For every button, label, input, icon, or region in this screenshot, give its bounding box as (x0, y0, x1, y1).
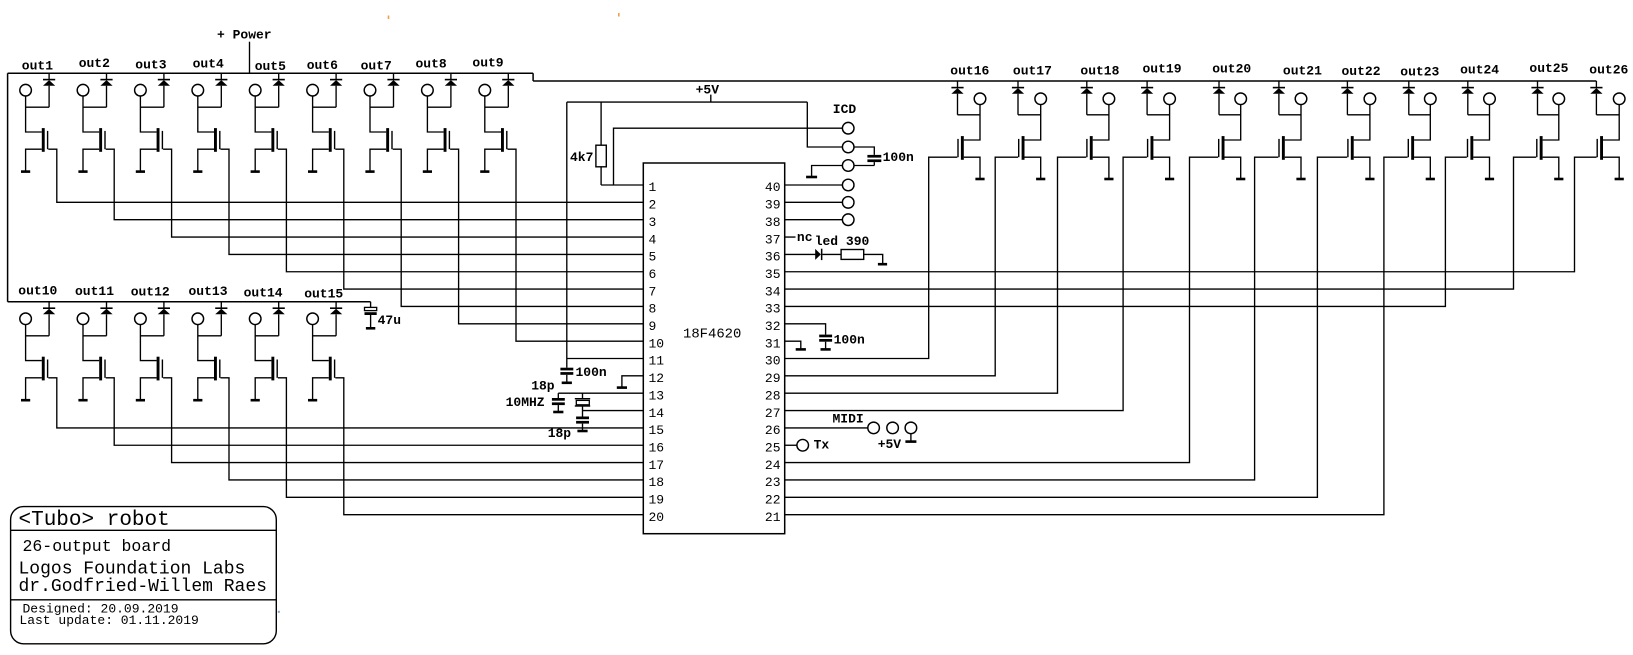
capacitor C4a 18p (557, 393, 559, 398)
svg-text:out1: out1 (22, 58, 53, 73)
flyback diode out14 (278, 302, 280, 308)
svg-text:35: 35 (765, 267, 781, 282)
transistor Q15 (out15 driver MOSFET) (329, 357, 332, 381)
wire: out16 gate to PIC pin 30 (785, 157, 958, 358)
ground R2 (878, 263, 887, 266)
flyback diode out4 (220, 73, 222, 79)
ground out7 (365, 170, 374, 173)
output connector out14 (249, 313, 261, 325)
svg-text:40: 40 (765, 180, 781, 195)
transistor Q16 (out16 driver MOSFET) (961, 136, 964, 160)
wire: out7 gate to PIC pin 8 (393, 149, 644, 306)
wire: rail step down (532, 73, 534, 81)
svg-text:+5V: +5V (878, 437, 902, 452)
svg-text:MIDI: MIDI (833, 412, 864, 427)
svg-text:30: 30 (765, 354, 781, 369)
svg-text:ICD: ICD (833, 102, 857, 117)
wire: out14 gate to PIC pin 19 (278, 378, 643, 498)
wire: out2 source to ground (83, 149, 99, 171)
wire: out11 output node (83, 324, 107, 360)
svg-text:22: 22 (765, 493, 781, 508)
wire: +5V down to Vdd pin 11 and 100n (567, 102, 644, 368)
wire: out8 source to ground (427, 149, 443, 171)
flyback diode out20 (1218, 81, 1220, 88)
ground out20 (1236, 178, 1245, 181)
output connector out26 (1613, 93, 1625, 105)
flyback diode out3 (163, 73, 165, 79)
svg-text:14: 14 (649, 406, 665, 421)
output connector out20 (1235, 93, 1247, 105)
transistor Q18 (out18 driver MOSFET) (1090, 136, 1093, 160)
svg-text:+5V: +5V (696, 82, 720, 97)
flyback diode out8 (450, 73, 452, 79)
wire: out8 gate to PIC pin 9 (450, 149, 643, 324)
svg-text:100n: 100n (576, 365, 607, 380)
wire: out7 source to ground (370, 149, 386, 171)
svg-text:24: 24 (765, 458, 781, 473)
wire: out16 source to ground (964, 157, 980, 179)
title block frame (11, 507, 277, 644)
svg-text:+ Power: + Power (217, 27, 272, 42)
flyback diode out6 (335, 73, 337, 79)
speck (scan artifact) near title block (278, 611, 280, 613)
ground C4a (553, 411, 563, 414)
svg-text:29: 29 (765, 371, 781, 386)
wire: out13 source to ground (198, 378, 214, 400)
flyback diode out11 (106, 302, 108, 308)
wire: MIDI pin3 to +5V bar (910, 434, 912, 442)
svg-text:1: 1 (649, 180, 657, 195)
flyback diode out1 (48, 73, 50, 79)
wire: out11 source to ground (83, 378, 99, 400)
flyback diode out5 (278, 73, 280, 79)
transistor Q25 (out25 driver MOSFET) (1540, 136, 1543, 160)
wire: + Power stem to rail (249, 42, 251, 73)
ground out22 (1365, 178, 1374, 181)
ground out6 (308, 170, 317, 173)
svg-text:Last update: 01.11.2019: Last update: 01.11.2019 (19, 613, 198, 628)
svg-text:2: 2 (649, 198, 657, 213)
connector ICD pin 5 (842, 197, 854, 209)
wire: PIC pin 40 to ICD pin4 (785, 184, 843, 186)
output connector out15 (307, 313, 319, 325)
flyback diode out10 (48, 302, 50, 308)
wire: out5 output node (255, 96, 279, 132)
wire: out18 source to ground (1093, 157, 1109, 179)
wire: out23 output node (1409, 104, 1431, 140)
wire: out6 output node (313, 96, 337, 132)
ground out17 (1036, 178, 1045, 181)
wire: out26 gate to PIC pin 35 (785, 157, 1597, 272)
svg-text:out8: out8 (416, 57, 447, 72)
connector ICD pin 3 (842, 160, 854, 172)
output connector out3 (135, 84, 147, 96)
wire: out4 output node (198, 96, 222, 132)
resistor R1 4k7 (MCLR pullup) (600, 102, 602, 145)
IC U1 18F4620 body (643, 163, 784, 534)
svg-text:dr.Godfried-Willem Raes: dr.Godfried-Willem Raes (19, 577, 267, 597)
output connector out13 (192, 313, 204, 325)
svg-text:26-output board: 26-output board (23, 537, 172, 556)
svg-text:out24: out24 (1460, 63, 1499, 78)
ground C4b (577, 430, 587, 433)
transistor Q24 (out24 driver MOSFET) (1470, 136, 1473, 160)
capacitor C1 100n (Vdd decoupling) (560, 368, 573, 371)
svg-text:18p: 18p (548, 426, 572, 441)
svg-text:7: 7 (649, 284, 657, 299)
wire: out14 output node (255, 324, 279, 360)
svg-text:26: 26 (765, 423, 781, 438)
wire: out20 gate to PIC pin 24 (785, 157, 1218, 462)
flyback diode out26 (1595, 81, 1597, 88)
connector ICD pin 1 (842, 122, 854, 134)
transistor Q5 (out5 driver MOSFET) (271, 128, 274, 152)
ground out2 (78, 170, 87, 173)
wire: out4 gate to PIC pin 5 (221, 149, 644, 254)
svg-text:10: 10 (649, 336, 665, 351)
wire: out12 gate to PIC pin 17 (163, 378, 643, 463)
wire: pin 31 to ground (785, 341, 801, 349)
wire: LED to R2 (822, 253, 841, 255)
wire: left frame vertical rail1 to rail2 (7, 73, 9, 302)
flyback diode out18 (1086, 81, 1088, 88)
ground out5 (251, 170, 260, 173)
svg-text:36: 36 (765, 250, 781, 265)
ground pin 12 (617, 386, 627, 389)
connector MIDI pin 2 (887, 422, 899, 434)
transistor Q11 (out11 driver MOSFET) (99, 357, 102, 381)
transistor Q17 (out17 driver MOSFET) (1022, 136, 1025, 160)
svg-text:19: 19 (649, 493, 665, 508)
wire: out19 source to ground (1153, 157, 1169, 179)
svg-text:nc: nc (797, 230, 813, 245)
resistor R2 390 (841, 250, 864, 260)
wire: pin 25 to Tx connector (785, 444, 797, 446)
wire: out3 output node (140, 96, 164, 132)
wire: out17 gate to PIC pin 29 (785, 157, 1018, 376)
wire: out12 output node (140, 324, 164, 360)
transistor Q4 (out4 driver MOSFET) (214, 128, 217, 152)
svg-text:out14: out14 (244, 285, 283, 300)
svg-text:9: 9 (649, 319, 657, 334)
wire: out8 output node (427, 96, 451, 132)
wire: out9 source to ground (485, 149, 501, 171)
connector Tx (797, 439, 809, 451)
wire: pin 32 to C3 (785, 324, 826, 335)
svg-text:out17: out17 (1013, 64, 1052, 79)
svg-text:47u: 47u (378, 313, 401, 328)
wire: out25 output node (1538, 104, 1559, 140)
wire: out9 gate to PIC pin 10 (508, 149, 644, 341)
ground out8 (423, 170, 432, 173)
svg-text:6: 6 (649, 267, 657, 282)
svg-text:out26: out26 (1589, 63, 1628, 78)
transistor Q12 (out12 driver MOSFET) (157, 357, 160, 381)
wire: out7 output node (370, 96, 394, 132)
svg-text:39: 39 (765, 198, 781, 213)
speck (scan artifact) top right (618, 13, 620, 17)
ground out21 (1296, 178, 1305, 181)
output connector out24 (1484, 93, 1496, 105)
svg-text:15: 15 (649, 423, 665, 438)
wire: out22 source to ground (1354, 157, 1370, 179)
wire: out10 output node (26, 324, 49, 360)
transistor Q20 (out20 driver MOSFET) (1222, 136, 1225, 160)
svg-text:out19: out19 (1143, 61, 1182, 76)
ground out11 (78, 399, 87, 402)
ground out25 (1554, 178, 1563, 181)
transistor Q7 (out7 driver MOSFET) (386, 128, 389, 152)
svg-text:out22: out22 (1342, 64, 1381, 79)
connector ICD pin 2 (842, 141, 854, 153)
wire: out22 output node (1347, 104, 1370, 140)
wire: ICD pin2 to C2 (854, 147, 875, 155)
svg-text:Tx: Tx (814, 438, 830, 453)
svg-text:21: 21 (765, 510, 781, 525)
wire: out4 source to ground (198, 149, 214, 171)
flyback diode out19 (1146, 81, 1148, 88)
svg-text:100n: 100n (834, 333, 865, 348)
wire: out22 gate to PIC pin 22 (785, 157, 1347, 497)
wire: out10 source to ground (26, 378, 42, 400)
ground 47u (366, 327, 375, 330)
svg-text:4: 4 (649, 232, 657, 247)
capacitor C5 47u (electrolytic on +Power) (370, 302, 372, 308)
wire: out19 output node (1147, 104, 1170, 140)
ground pin 31 (796, 348, 806, 351)
svg-text:out5: out5 (255, 59, 286, 74)
wire: +Power rail over out10-out15 (8, 301, 371, 303)
ground out16 (975, 178, 984, 181)
transistor Q19 (out19 driver MOSFET) (1151, 136, 1154, 160)
svg-text:28: 28 (765, 388, 781, 403)
wire: pin 36 to LED (785, 253, 816, 255)
wire: out23 source to ground (1414, 157, 1430, 179)
wire: out9 output node (485, 96, 509, 132)
svg-text:32: 32 (765, 319, 781, 334)
transistor Q9 (out9 driver MOSFET) (501, 128, 504, 152)
svg-text:out18: out18 (1080, 64, 1119, 79)
svg-text:out25: out25 (1529, 61, 1568, 76)
svg-text:out6: out6 (307, 58, 338, 73)
wire: out10 gate to PIC pin 15 (48, 378, 643, 428)
transistor Q10 (out10 driver MOSFET) (42, 357, 45, 381)
wire: pin 26 to MIDI connector (785, 427, 868, 429)
capacitor C3 100n (AVdd decoupling) (819, 335, 832, 338)
transistor Q13 (out13 driver MOSFET) (214, 357, 217, 381)
flyback diode out22 (1346, 81, 1348, 88)
connector ICD pin 6 (842, 214, 854, 226)
output connector out16 (974, 93, 986, 105)
svg-text:100n: 100n (883, 150, 914, 165)
connector MIDI pin 1 (868, 422, 880, 434)
wire: +5V horizontal line (567, 101, 808, 103)
wire: out14 source to ground (255, 378, 271, 400)
ground out13 (193, 399, 202, 402)
transistor Q26 (out26 driver MOSFET) (1600, 136, 1603, 160)
wire: out1 gate to PIC pin 2 (48, 149, 643, 202)
svg-text:out10: out10 (18, 283, 57, 298)
wire: out20 source to ground (1225, 157, 1241, 179)
flyback diode out21 (1278, 81, 1280, 88)
wire: out24 output node (1468, 104, 1490, 140)
speck (scan artifact) top left (388, 16, 390, 20)
transistor Q14 (out14 driver MOSFET) (271, 357, 274, 381)
output connector out18 (1103, 93, 1115, 105)
wire: out13 gate to PIC pin 18 (221, 378, 644, 480)
output connector out10 (20, 313, 32, 325)
svg-text:out20: out20 (1212, 61, 1251, 76)
flyback diode out25 (1537, 81, 1539, 88)
ground ICD (806, 176, 817, 179)
wire: out18 gate to PIC pin 28 (785, 157, 1086, 393)
flyback diode out9 (507, 73, 509, 79)
wire: out15 output node (313, 324, 337, 360)
svg-text:37: 37 (765, 232, 781, 247)
ground out3 (136, 170, 145, 173)
output connector out9 (479, 84, 491, 96)
transistor Q21 (out21 driver MOSFET) (1282, 136, 1285, 160)
output connector out22 (1364, 93, 1376, 105)
svg-text:8: 8 (649, 302, 657, 317)
wire: out23 gate to PIC pin 21 (785, 157, 1408, 514)
ground out12 (136, 399, 145, 402)
wire: out12 source to ground (140, 378, 156, 400)
capacitor C4b 18p (582, 411, 584, 417)
flyback diode out17 (1017, 81, 1019, 88)
transistor Q22 (out22 driver MOSFET) (1351, 136, 1354, 160)
output connector out12 (135, 313, 147, 325)
wire: R2 to ground (864, 254, 883, 264)
output connector out19 (1164, 93, 1176, 105)
flyback diode out2 (106, 73, 108, 79)
wire: out16 output node (958, 104, 981, 140)
svg-text:13: 13 (649, 388, 665, 403)
output connector out23 (1425, 93, 1437, 105)
wire: pin 13 OSC1 net (558, 392, 643, 394)
ground out10 (21, 399, 30, 402)
output connector out8 (422, 84, 434, 96)
wire: PIC pin 38 to ICD pin6 (785, 219, 843, 221)
svg-text:out9: out9 (472, 56, 503, 71)
ground out19 (1165, 178, 1174, 181)
ground out1 (21, 170, 30, 173)
wire: out15 source to ground (313, 378, 329, 400)
wire: out25 source to ground (1543, 157, 1559, 179)
svg-text:out12: out12 (131, 284, 170, 299)
wire: out3 gate to PIC pin 4 (163, 149, 643, 237)
svg-text:3: 3 (649, 215, 657, 230)
svg-text:20: 20 (649, 510, 665, 525)
wire: ICD pin2 to +5V (807, 102, 842, 147)
wire: out3 source to ground (140, 149, 156, 171)
flyback diode out13 (220, 302, 222, 308)
svg-text:out23: out23 (1400, 64, 1439, 79)
svg-text:18: 18 (649, 475, 665, 490)
svg-text:out3: out3 (135, 57, 166, 72)
wire: pin 14 OSC2 net (583, 410, 644, 412)
output connector out21 (1295, 93, 1307, 105)
capacitor C2 100n (ICD supply) (867, 155, 881, 158)
wire: out6 gate to PIC pin 7 (335, 149, 643, 289)
output connector out25 (1553, 93, 1565, 105)
flyback diode out16 (957, 81, 959, 88)
ground out9 (480, 170, 489, 173)
output connector out1 (20, 84, 32, 96)
flyback diode out15 (335, 302, 337, 308)
wire: out18 output node (1087, 104, 1109, 140)
output connector out11 (77, 313, 89, 325)
wire: out1 output node (26, 96, 49, 132)
title block divider 1 (11, 529, 277, 531)
svg-text:out2: out2 (79, 56, 110, 71)
svg-text:led 390: led 390 (815, 234, 870, 249)
transistor Q23 (out23 driver MOSFET) (1411, 136, 1414, 160)
wire: out25 gate to PIC pin 34 (785, 157, 1536, 289)
svg-text:31: 31 (765, 336, 781, 351)
wire: out26 output node (1596, 104, 1619, 140)
LED D27 (815, 249, 821, 260)
svg-text:<Tubo> robot: <Tubo> robot (19, 509, 170, 532)
wire: pin 12 to ground (622, 376, 643, 388)
transistor Q1 (out1 driver MOSFET) (42, 128, 45, 152)
transistor Q8 (out8 driver MOSFET) (444, 128, 447, 152)
title block divider 2 (11, 599, 277, 601)
wire: out2 output node (83, 96, 107, 132)
wire: out17 output node (1018, 104, 1041, 140)
svg-text:10MHZ: 10MHZ (506, 395, 545, 410)
output connector out7 (364, 84, 376, 96)
wire: out21 output node (1279, 104, 1301, 140)
output connector out5 (249, 84, 261, 96)
ground out18 (1104, 178, 1113, 181)
power bar +5V (MIDI) (905, 440, 916, 443)
wire: out19 gate to PIC pin 27 (785, 157, 1147, 410)
ground out26 (1615, 178, 1624, 181)
svg-text:11: 11 (649, 354, 665, 369)
flyback diode out24 (1467, 81, 1469, 88)
wire: C2 to ICD pin3 (854, 165, 875, 167)
svg-text:out21: out21 (1283, 64, 1322, 79)
ground C3 (821, 348, 831, 351)
svg-text:27: 27 (765, 406, 781, 421)
ground out24 (1485, 178, 1494, 181)
wire: pin 37 stub (785, 236, 796, 238)
wire: out11 gate to PIC pin 16 (106, 378, 644, 445)
wire: out6 source to ground (313, 149, 329, 171)
wire: out1 source to ground (26, 149, 42, 171)
wire: ICD pin3 to ground (812, 166, 843, 178)
wire: out24 gate to PIC pin 33 (785, 157, 1467, 306)
wire: +5V stem (710, 95, 712, 103)
flyback diode out12 (163, 302, 165, 308)
wire: out21 source to ground (1285, 157, 1301, 179)
svg-text:12: 12 (649, 371, 665, 386)
svg-text:5: 5 (649, 250, 657, 265)
svg-text:out11: out11 (75, 284, 114, 299)
ground out15 (308, 399, 317, 402)
svg-text:out15: out15 (304, 287, 343, 302)
wire: +Power rail over out1-out9 (8, 72, 534, 74)
svg-text:18p: 18p (531, 379, 555, 394)
svg-text:out7: out7 (361, 59, 392, 74)
wire: MCLR pin 1 net (601, 128, 843, 185)
svg-text:16: 16 (649, 440, 665, 455)
wire: out24 source to ground (1473, 157, 1489, 179)
wire: out15 gate to PIC pin 20 (335, 378, 643, 515)
output connector out4 (192, 84, 204, 96)
transistor Q3 (out3 driver MOSFET) (157, 128, 160, 152)
